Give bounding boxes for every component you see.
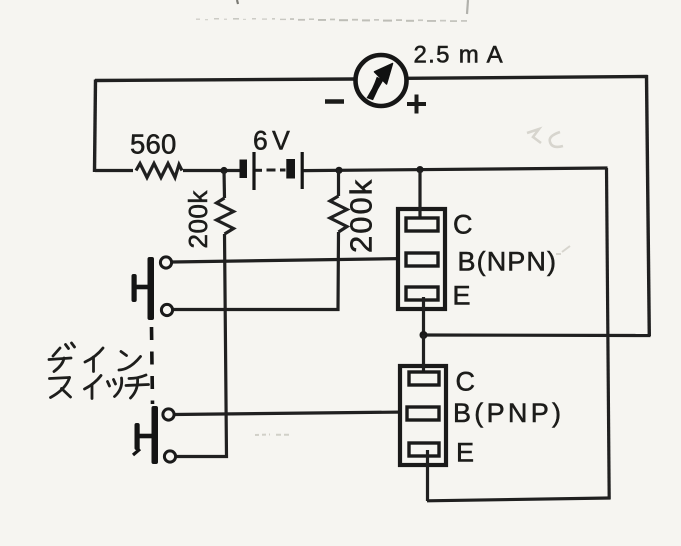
svg-text:E: E xyxy=(453,281,471,311)
wire: PNP collector lead from junction into socket xyxy=(422,335,425,375)
wire: R3 bottom lead down to switch contact 2 wire xyxy=(173,232,339,310)
label: gain switch (katakana, hand-drawn) ゲイン xyxy=(49,343,141,372)
wire: right-side vertical x=605 xyxy=(607,168,610,500)
katakana ge xyxy=(53,348,60,356)
battery B1 6V: short thick plate 1 xyxy=(240,160,248,179)
wire: rail from R1 to battery xyxy=(183,169,240,172)
node: junction dot rail/200k #1 xyxy=(220,167,227,174)
label: meter plus terminal xyxy=(407,95,426,114)
switch SW1a: contact circle 2 xyxy=(161,304,172,315)
switch SW1b: contact circle 4 xyxy=(164,451,175,462)
socket PNP pin C xyxy=(409,372,439,385)
katakana chi xyxy=(129,375,146,379)
battery B1: long thin plate 1 xyxy=(252,152,255,190)
svg-text:2.5 m A: 2.5 m A xyxy=(414,42,504,69)
node: junction dot NPN-E / PNP-C / meter return xyxy=(420,331,428,339)
wire: main rail left segment xyxy=(95,169,133,172)
resistor R3 200k: vertical zigzag xyxy=(330,196,347,232)
resistor R3 200k: lead from rail xyxy=(337,170,340,196)
socket NPN pin B xyxy=(406,253,438,266)
svg-text:200k: 200k xyxy=(344,178,379,253)
switch SW1b: crossbar foot tick xyxy=(133,449,140,455)
battery B1: long thin plate 2 xyxy=(301,152,304,189)
katakana i xyxy=(85,348,103,362)
switch SW1b: actuator crossbar xyxy=(135,423,140,450)
katakana su xyxy=(50,378,70,379)
resistor R2 200k: lead from rail xyxy=(222,171,226,199)
svg-text:B(NPN): B(NPN) xyxy=(458,247,558,277)
transistor socket PNP: outer box xyxy=(400,366,446,465)
label: meter minus terminal xyxy=(325,99,344,104)
transistor socket NPN: outer box xyxy=(398,209,445,309)
switch SW1a: actuator arm xyxy=(133,285,148,290)
battery B1: dashed middle (multi-cell) xyxy=(267,169,286,172)
switch SW1b: pole bar xyxy=(152,406,159,464)
socket NPN pin E xyxy=(406,287,438,300)
wire: PNP emitter lead down to bottom wire xyxy=(426,450,429,501)
switch link: dashed mechanical coupling xyxy=(152,327,153,404)
wire: switch contact 3 to PNP base xyxy=(174,412,408,415)
svg-text:560: 560 xyxy=(130,129,176,160)
meter M1: needle shaft xyxy=(367,77,384,100)
switch SW1b: contact circle 3 xyxy=(163,409,174,420)
meter M1: needle arrowhead xyxy=(375,64,393,85)
wire: meter return horizontal y=335 xyxy=(424,333,651,337)
svg-text:C: C xyxy=(453,210,473,240)
battery B1: stub after plate 1 xyxy=(256,169,263,172)
wire: rail from battery to right corner xyxy=(304,168,608,171)
switch SW1a: actuator crossbar xyxy=(132,274,137,302)
wire: top loop horizontal right of meter xyxy=(407,77,648,79)
socket PNP pin E xyxy=(409,443,439,456)
resistor R2 200k: vertical zigzag xyxy=(217,198,234,234)
wire: top loop horizontal left of meter xyxy=(95,79,355,81)
node: junction dot rail/200k #2 xyxy=(335,167,342,174)
svg-text:E: E xyxy=(456,438,474,468)
resistor R1 560: zigzag xyxy=(136,164,182,178)
wire: right vertical from top loop down to meter return xyxy=(647,75,650,336)
svg-text:C: C xyxy=(456,367,476,397)
katakana small tsu xyxy=(108,382,110,387)
socket NPN pin C xyxy=(406,218,438,231)
wire: R2 bottom lead down to switch contact 4 corner xyxy=(176,234,227,457)
node: junction dot rail/NPN collector xyxy=(416,166,423,173)
switch SW1a: pole bar xyxy=(148,257,155,320)
wire: bottom horizontal y=500 xyxy=(427,498,610,501)
svg-text:6 V: 6 V xyxy=(253,126,290,156)
wire: switch contact 1 to NPN base xyxy=(172,259,407,263)
meter M1 2.5mA: circle body xyxy=(356,55,407,106)
wire: NPN collector lead from rail into socket xyxy=(418,170,421,219)
switch SW1b: actuator arm xyxy=(137,434,152,439)
socket PNP pin B xyxy=(407,407,439,420)
katakana i xyxy=(85,376,102,390)
wire: NPN emitter lead down to junction xyxy=(422,297,425,336)
wire: left vertical from top loop to rail xyxy=(95,80,96,173)
svg-text:200k: 200k xyxy=(183,190,213,249)
katakana n xyxy=(121,352,127,356)
label: gain switch (katakana, hand-drawn) スイッチ xyxy=(50,375,149,399)
switch SW1a: contact circle 1 xyxy=(160,257,171,268)
svg-text:B(PNP): B(PNP) xyxy=(453,398,564,428)
battery B1: short thick plate 2 xyxy=(286,159,295,179)
